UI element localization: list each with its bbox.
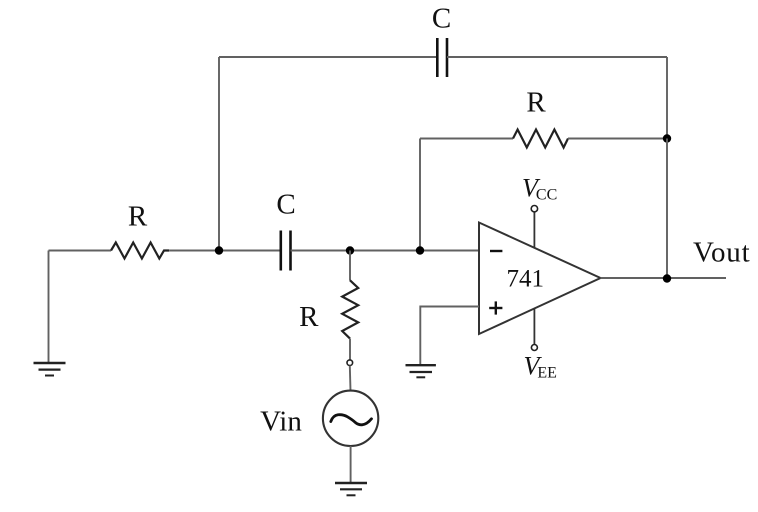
svg-text:R: R: [128, 200, 148, 232]
op-amp minus input symbol: [490, 250, 502, 252]
wire: main line from left resistor to series capacitor: [169, 250, 280, 252]
wire: from vertical resistor to terminal circle: [349, 339, 351, 360]
resistor R (left): [111, 243, 169, 259]
svg-text:R: R: [526, 87, 546, 119]
svg-text:Vout: Vout: [693, 237, 750, 269]
wire: source bottom to ground: [350, 446, 352, 482]
node: open terminal circle above source: [347, 360, 353, 366]
wire: right vertical from top corner down to feedback-R junction: [666, 57, 668, 139]
wire: from terminal circle to source top: [349, 366, 352, 391]
wire: top feedback loop left vertical (junction A up): [218, 57, 220, 251]
svg-text:741: 741: [507, 266, 545, 293]
wire: feedback R loop left vertical (junction C up): [419, 139, 421, 251]
ground (left): [34, 363, 66, 376]
wire: left input corner vertical to ground: [48, 251, 50, 363]
source Vin (sine source): [323, 391, 378, 446]
svg-text:Vin: Vin: [260, 406, 302, 438]
wire: feedback R horizontal right segment: [568, 138, 667, 140]
pin VCC line: [533, 212, 535, 248]
pin VEE line: [533, 309, 535, 345]
wire: main line from series capacitor to op-amp: [291, 250, 480, 252]
capacitor C (top feedback): [437, 38, 447, 77]
wire: Vin branch down from junction B: [349, 251, 351, 281]
ground (below plus input): [406, 365, 436, 377]
wire: top horizontal left segment to capacitor C: [219, 56, 437, 58]
wire: feedback R horizontal left segment: [420, 138, 513, 140]
node: output junction dot: [663, 274, 671, 282]
node: junction C dot (feedback branch): [416, 246, 424, 254]
wire: right vertical from feedback junction down to output node: [666, 139, 668, 279]
wire: top horizontal right segment from capacitor: [447, 56, 667, 58]
capacitor C (series): [281, 231, 291, 271]
op-amp plus input symbol: [489, 301, 502, 314]
svg-text:C: C: [432, 2, 451, 34]
pin VEE terminal circle: [531, 345, 537, 351]
wire: plus input to ground: [420, 307, 479, 365]
node: junction A dot: [215, 246, 223, 254]
node: junction B dot (Vin branch): [346, 246, 354, 254]
resistor R (feedback): [513, 130, 568, 148]
wire: output from op-amp apex to the right: [601, 277, 727, 279]
svg-text:C: C: [276, 188, 295, 220]
pin VCC terminal circle: [531, 206, 537, 212]
svg-text:R: R: [299, 301, 319, 333]
op-amp U1 (741) triangle: [479, 223, 601, 335]
sine symbol inside source: [331, 415, 372, 425]
resistor R (Vin branch, vertical): [342, 280, 358, 338]
node: feedback junction dot: [663, 134, 671, 142]
ground (below Vin source): [335, 483, 367, 495]
wire: main line left segment to resistor: [49, 250, 112, 252]
